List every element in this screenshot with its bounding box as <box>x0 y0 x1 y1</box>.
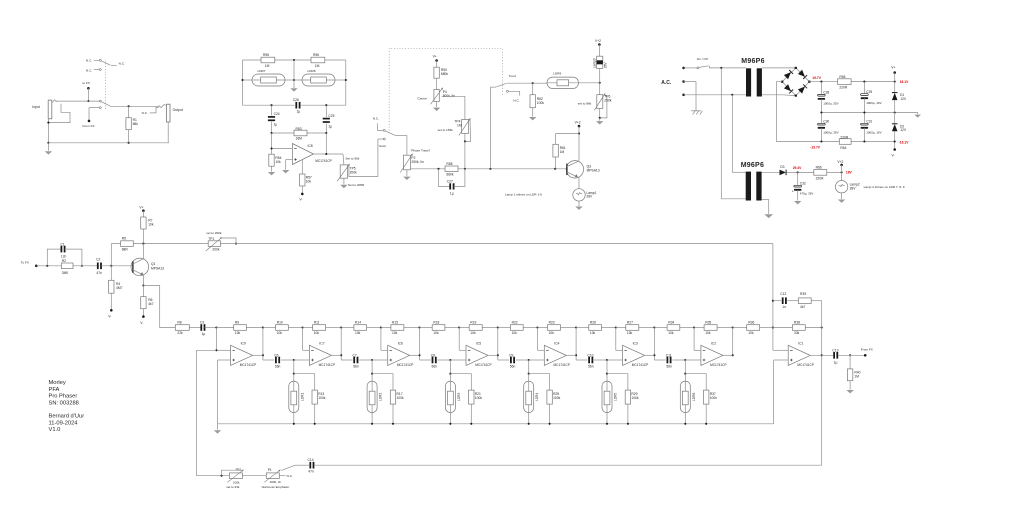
svg-text:MC1741CP: MC1741CP <box>319 363 335 367</box>
op-amp IC6 <box>388 345 410 365</box>
svg-text:'Centre': 'Centre' <box>417 97 428 101</box>
svg-text:19.7V: 19.7V <box>812 76 821 80</box>
svg-text:R34: R34 <box>668 320 674 324</box>
wire IC9 non-inverting input <box>218 359 231 361</box>
output jack J2 <box>166 104 170 122</box>
wire IC7 inverting input <box>302 326 304 328</box>
svg-text:PFA: PFA <box>49 387 60 393</box>
LFO box left wire <box>242 60 244 105</box>
svg-text:M96P6: M96P6 <box>741 58 764 65</box>
wire IC5 output node <box>497 328 499 361</box>
svg-text:C30: C30 <box>823 120 829 124</box>
input jack J1 <box>48 100 52 119</box>
svg-text:100K, lin: 100K, lin <box>269 480 281 484</box>
svg-text:100k: 100k <box>537 101 545 105</box>
resistor R58 <box>445 166 458 172</box>
svg-text:10k: 10k <box>705 331 711 335</box>
svg-text:10k: 10k <box>355 331 361 335</box>
svg-text:On / Off: On / Off <box>697 57 708 61</box>
capacitor C29 <box>863 82 865 94</box>
svg-text:1µ: 1µ <box>328 124 332 128</box>
svg-text:C3: C3 <box>200 320 204 324</box>
svg-text:R39: R39 <box>800 292 806 296</box>
bottom ground rail <box>48 142 168 144</box>
wire TP2 to P1 <box>242 475 266 477</box>
svg-text:C7: C7 <box>353 353 357 357</box>
resistor R26 <box>576 327 589 329</box>
svg-text:R23: R23 <box>549 320 555 324</box>
svg-text:10k: 10k <box>148 222 154 226</box>
ground <box>47 143 49 151</box>
svg-text:33k: 33k <box>794 331 800 335</box>
capacitor C1 <box>47 249 60 266</box>
svg-text:28V: 28V <box>850 186 857 190</box>
resistor R6 <box>142 286 144 297</box>
wire P2 wiper row <box>411 168 445 170</box>
bypass switch linkage dotted line <box>105 61 107 111</box>
resistor R21 <box>450 374 471 390</box>
wire T2 primary bottom <box>720 68 722 199</box>
svg-text:N.C.: N.C. <box>86 69 92 73</box>
svg-text:100k: 100k <box>318 396 326 400</box>
resistor R14 <box>341 327 354 329</box>
resistor R15 <box>381 327 391 329</box>
svg-text:R56: R56 <box>313 53 319 57</box>
svg-text:10k: 10k <box>748 331 754 335</box>
svg-text:10k: 10k <box>314 331 320 335</box>
svg-text:C9: C9 <box>509 353 513 357</box>
svg-text:+: + <box>792 189 794 193</box>
svg-text:1n: 1n <box>782 305 786 309</box>
resistor R34 <box>654 327 667 329</box>
wire AC line to T1 primary bottom <box>684 94 746 96</box>
svg-text:220R: 220R <box>816 176 825 180</box>
ground <box>282 170 289 173</box>
svg-text:LDR8: LDR8 <box>308 69 316 73</box>
svg-text:V+: V+ <box>433 54 437 58</box>
wire dry rail drop to IC1 <box>772 244 774 351</box>
svg-text:R27: R27 <box>627 320 633 324</box>
svg-text:N.C.: N.C. <box>373 117 379 121</box>
svg-text:V1.0: V1.0 <box>49 427 61 433</box>
svg-text:set to 153k: set to 153k <box>438 128 454 132</box>
svg-text:C14: C14 <box>308 458 314 462</box>
ground <box>764 214 773 218</box>
svg-text:10k: 10k <box>392 331 398 335</box>
svg-text:10k: 10k <box>512 331 518 335</box>
ground <box>846 390 853 393</box>
wire T2 primary top <box>731 95 733 173</box>
node stage 4 <box>528 359 530 361</box>
zener D2 <box>894 113 896 124</box>
ground <box>340 185 347 188</box>
svg-text:1µ: 1µ <box>274 123 278 127</box>
svg-text:IC6: IC6 <box>398 341 403 345</box>
svg-text:Lamp 2 shines on LDR 7, 8, 9: Lamp 2 shines on LDR 7, 8, 9 <box>864 185 905 189</box>
auto switch <box>377 139 379 177</box>
wire P2 bottom <box>406 170 408 176</box>
svg-text:10k: 10k <box>668 331 674 335</box>
svg-text:1M: 1M <box>560 150 565 154</box>
ground <box>403 177 410 180</box>
wire IC6 output node <box>419 328 421 361</box>
svg-text:C31: C31 <box>866 120 872 124</box>
wire dry signal rail <box>133 243 208 245</box>
svg-text:1µ: 1µ <box>297 109 301 113</box>
svg-text:47n: 47n <box>96 271 102 275</box>
resistor R10 <box>263 327 276 329</box>
bridge rectifier D4-D7 <box>796 68 810 82</box>
capacitor C8 <box>420 359 431 361</box>
resistor R62 <box>532 83 534 95</box>
lamp Lamp3 <box>598 45 600 57</box>
svg-text:4M7: 4M7 <box>116 286 123 290</box>
diode D3 <box>780 170 786 176</box>
svg-text:V+: V+ <box>139 206 143 210</box>
svg-text:TP2: TP2 <box>235 467 241 471</box>
svg-text:Morley: Morley <box>49 380 66 386</box>
svg-text:R5: R5 <box>122 237 126 241</box>
svg-text:set to 86k: set to 86k <box>578 102 592 106</box>
svg-text:29.4V: 29.4V <box>793 166 802 170</box>
node From FX <box>864 354 867 357</box>
svg-text:V-: V- <box>299 197 302 201</box>
svg-text:R11: R11 <box>314 320 320 324</box>
svg-text:-19.7V: -19.7V <box>810 145 821 149</box>
svg-text:10k: 10k <box>470 331 476 335</box>
trimmer TP2 <box>197 475 230 477</box>
wire IC2 inverting input <box>693 326 695 328</box>
resistor R64 <box>839 139 851 145</box>
svg-text:R22: R22 <box>512 320 518 324</box>
wire IC9 inverting input <box>215 328 217 351</box>
capacitor C27 <box>439 169 451 187</box>
bypass switch pole contact <box>99 100 101 102</box>
svg-text:MC1741CP: MC1741CP <box>315 159 331 163</box>
wire P4 bottom <box>436 102 438 108</box>
svg-text:R65: R65 <box>839 75 845 79</box>
ground <box>433 108 440 111</box>
resistor R8 <box>175 325 189 331</box>
wire mid rail <box>821 112 917 114</box>
resistor R40 <box>849 355 851 369</box>
capacitor C3 <box>189 327 201 329</box>
svg-text:4k7: 4k7 <box>148 302 153 306</box>
svg-text:R36: R36 <box>748 320 754 324</box>
svg-text:56n: 56n <box>666 364 672 368</box>
svg-text:200k: 200k <box>350 170 358 174</box>
on/off switch <box>684 67 697 69</box>
svg-text:C13: C13 <box>832 349 838 353</box>
ground <box>794 201 801 204</box>
foot switch <box>489 87 491 169</box>
svg-text:V+2: V+2 <box>595 39 601 43</box>
trimmer TP1 <box>208 241 220 247</box>
resistor R1 <box>128 106 130 117</box>
svg-text:1M: 1M <box>265 64 270 68</box>
svg-text:N.C.: N.C. <box>513 99 519 103</box>
svg-text:100k: 100k <box>475 396 483 400</box>
capacitor C6 <box>263 359 274 361</box>
svg-text:56n: 56n <box>353 364 359 368</box>
svg-text:C25: C25 <box>328 114 334 118</box>
svg-text:Q1: Q1 <box>151 262 156 266</box>
capacitor C24 <box>271 105 273 115</box>
svg-text:to FX: to FX <box>83 81 90 85</box>
node stage 5 <box>606 359 608 361</box>
potentiometer P1 Harmonic Emphasis <box>282 465 296 470</box>
trimmer TP4 <box>462 120 469 134</box>
foot switch N.C. contact <box>506 90 508 92</box>
node V- <box>894 142 896 150</box>
svg-text:D3: D3 <box>780 165 784 169</box>
lamp Lamp1 <box>573 189 585 201</box>
resistor R29 <box>607 374 628 390</box>
svg-text:R35: R35 <box>705 320 711 324</box>
svg-text:R14: R14 <box>355 320 361 324</box>
svg-text:12n: 12n <box>61 254 67 258</box>
LDR2 <box>371 374 373 381</box>
potentiometer P4 Centre <box>434 90 439 102</box>
wire IC4 inverting input <box>536 326 538 328</box>
wire IC1 inverting input <box>773 349 788 351</box>
resistor R66 <box>798 171 814 173</box>
node V+ <box>893 71 896 74</box>
svg-text:C32: C32 <box>800 181 806 185</box>
capacitor C7 <box>341 359 352 361</box>
svg-text:1µ: 1µ <box>202 332 206 336</box>
wire auto to P2 <box>406 136 408 156</box>
resistor R25 <box>529 374 550 390</box>
svg-text:MC1741CP: MC1741CP <box>632 363 648 367</box>
svg-text:R10: R10 <box>277 320 283 324</box>
svg-text:100k: 100k <box>631 396 639 400</box>
svg-text:R2: R2 <box>62 259 66 263</box>
svg-text:MPSA13: MPSA13 <box>587 169 600 173</box>
svg-text:4k7: 4k7 <box>800 305 805 309</box>
svg-text:V-: V- <box>108 314 111 318</box>
wire IC8 V- pin <box>301 160 303 174</box>
resistor R36 <box>733 327 747 329</box>
resistor R2 <box>61 263 73 269</box>
svg-text:Output: Output <box>173 108 183 112</box>
svg-text:680k: 680k <box>441 72 449 76</box>
wire IC5 inverting input <box>458 326 460 328</box>
svg-text:10k: 10k <box>275 160 281 164</box>
wire IC8 non-inverting input <box>286 159 293 161</box>
svg-text:R18: R18 <box>433 320 439 324</box>
svg-text:'Auto': 'Auto' <box>379 144 387 148</box>
svg-text:set to 33k: set to 33k <box>226 485 240 489</box>
svg-text:-16.1V: -16.1V <box>899 140 910 144</box>
resistor R39 <box>798 298 811 304</box>
wire IC3 output node <box>653 328 655 361</box>
svg-text:18V: 18V <box>846 171 853 175</box>
op-amp IC1 <box>788 345 810 365</box>
svg-text:C11: C11 <box>666 353 672 357</box>
svg-text:R66: R66 <box>816 166 822 170</box>
svg-text:MPSA13: MPSA13 <box>151 267 164 271</box>
wire T2 secondary bottom to ground <box>762 198 769 200</box>
wire center divider <box>293 60 295 80</box>
svg-text:100k: 100k <box>710 396 718 400</box>
resistor R13 <box>294 374 315 390</box>
linkage dotted line to foot switch <box>389 48 502 133</box>
svg-text:1M: 1M <box>457 123 462 127</box>
svg-text:N.C.: N.C. <box>119 61 125 65</box>
op-amp IC2 <box>701 345 723 365</box>
svg-text:10k: 10k <box>433 331 439 335</box>
wire feedback to bottom row <box>197 349 217 351</box>
wire positive rail right <box>851 81 895 83</box>
svg-text:Input: Input <box>32 105 40 109</box>
svg-text:68k: 68k <box>133 122 139 126</box>
svg-text:MC1741CP: MC1741CP <box>554 363 570 367</box>
svg-text:28V: 28V <box>586 195 593 199</box>
svg-text:LDR4: LDR4 <box>535 393 539 401</box>
svg-text:TP1: TP1 <box>208 237 214 241</box>
resistor R18 <box>420 327 433 329</box>
resistor R4 <box>110 266 112 281</box>
svg-text:1µ: 1µ <box>450 191 454 195</box>
svg-text:C8: C8 <box>431 353 435 357</box>
svg-text:10k: 10k <box>590 331 596 335</box>
svg-text:From FX: From FX <box>861 347 873 351</box>
svg-text:C28: C28 <box>823 91 829 95</box>
svg-text:IC2: IC2 <box>711 341 716 345</box>
svg-text:MC1741CP: MC1741CP <box>475 363 491 367</box>
svg-text:16.1V: 16.1V <box>900 80 909 84</box>
svg-text:56n: 56n <box>510 364 516 368</box>
wire IC1 non-inverting input <box>774 359 789 361</box>
zener D1 <box>894 82 896 93</box>
svg-text:MC1741CP: MC1741CP <box>240 363 256 367</box>
wire bridge negative drop <box>777 82 840 142</box>
svg-text:MC1741CP: MC1741CP <box>797 363 813 367</box>
svg-text:56n: 56n <box>275 364 281 368</box>
svg-text:Pro Phaser: Pro Phaser <box>49 394 78 400</box>
svg-text:LDR7: LDR7 <box>258 69 266 73</box>
wire feedback right column <box>821 301 823 466</box>
svg-text:100k: 100k <box>397 396 405 400</box>
capacitor C28 <box>820 82 822 94</box>
wire emitter to chain <box>143 286 175 328</box>
svg-text:47n: 47n <box>308 470 314 474</box>
ground <box>914 115 921 118</box>
capacitor C13 <box>833 352 835 359</box>
svg-text:10k: 10k <box>306 180 312 184</box>
ground <box>838 200 845 203</box>
svg-text:IC8: IC8 <box>308 144 313 148</box>
svg-text:R38: R38 <box>794 320 800 324</box>
svg-text:M96P6: M96P6 <box>741 162 764 169</box>
svg-text:LDR6: LDR6 <box>692 393 696 401</box>
wire IC8 inverting input <box>271 133 273 154</box>
capacitor C26 <box>295 102 297 109</box>
node stage 3 <box>449 359 451 361</box>
svg-text:C24: C24 <box>274 112 280 116</box>
svg-text:LDR9: LDR9 <box>553 72 561 76</box>
svg-text:Bernard d'Uur: Bernard d'Uur <box>49 414 85 420</box>
capacitor C11 <box>654 359 665 361</box>
svg-text:R9: R9 <box>235 320 239 324</box>
resistor R23 <box>538 327 548 329</box>
node stage 2 <box>371 359 373 361</box>
resistor R57 <box>300 174 305 186</box>
lamp Lamp2 <box>841 172 843 180</box>
svg-text:Set to 205R: Set to 205R <box>348 183 365 187</box>
svg-text:N.C.: N.C. <box>287 474 293 478</box>
svg-text:68R: 68R <box>122 247 129 251</box>
resistor R27 <box>616 327 626 329</box>
svg-text:100k: 100k <box>553 396 561 400</box>
op-amp IC8 <box>292 144 313 165</box>
svg-text:Lamp3: Lamp3 <box>593 58 597 68</box>
wire bottom rail <box>243 104 295 106</box>
resistor R9 <box>216 327 233 329</box>
op-amp IC7 <box>309 345 331 365</box>
transistor Q3 <box>566 161 583 178</box>
ground <box>268 172 275 175</box>
svg-text:IC7: IC7 <box>319 341 324 345</box>
svg-text:V+2: V+2 <box>575 120 581 124</box>
wire collector <box>142 244 144 259</box>
wire T2 secondary top <box>762 171 780 173</box>
bypass switch lever <box>101 102 110 107</box>
svg-text:12V: 12V <box>900 128 907 132</box>
LDR5 <box>606 374 608 381</box>
wire input <box>36 265 61 267</box>
svg-text:680k: 680k <box>446 172 454 176</box>
wire IC9 output node <box>262 328 264 361</box>
ground <box>217 424 219 430</box>
capacitor C30 <box>820 113 822 123</box>
capacitor C12 feedback <box>773 300 781 302</box>
LDR9 <box>547 77 579 88</box>
wire pole to output <box>110 105 159 107</box>
wire LDR9 to lamp column <box>579 82 600 84</box>
wire IC7 output node <box>340 328 342 361</box>
wire top rail <box>243 59 262 61</box>
svg-text:IC3: IC3 <box>633 341 638 345</box>
wire bottom feedback row <box>315 464 822 466</box>
ground <box>529 117 536 120</box>
svg-text:250k, lin: 250k, lin <box>411 160 423 164</box>
wire input tip <box>56 100 100 102</box>
ground <box>599 118 601 121</box>
svg-text:V+: V+ <box>891 66 895 70</box>
svg-text:set to 200k: set to 200k <box>206 231 222 235</box>
svg-text:R19: R19 <box>470 320 476 324</box>
svg-text:R58: R58 <box>446 162 452 166</box>
LDR1 <box>293 374 295 381</box>
wire switch to T1 primary top <box>709 67 746 69</box>
svg-text:R53: R53 <box>296 127 302 131</box>
LFO box right wire <box>345 60 347 105</box>
svg-text:C29: C29 <box>866 90 872 94</box>
svg-text:V-: V- <box>140 321 143 325</box>
svg-text:LDR3: LDR3 <box>457 393 461 401</box>
svg-text:10k: 10k <box>549 331 555 335</box>
svg-text:10k: 10k <box>235 331 241 335</box>
svg-text:1000µ, 35V: 1000µ, 35V <box>823 131 838 135</box>
spare switch lever <box>101 61 110 65</box>
capacitor C10 <box>576 359 587 361</box>
resistor R56 <box>311 57 325 63</box>
trimmer TP6 <box>599 83 601 95</box>
output jack sleeve wire <box>167 122 169 143</box>
bias rail <box>218 423 774 425</box>
